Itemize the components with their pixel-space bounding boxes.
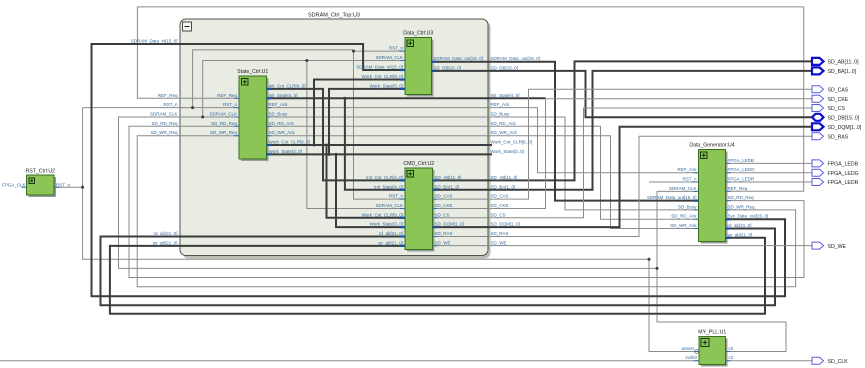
junction RST_n: [81, 186, 84, 189]
svg-text:Sys_Data_out[15..0]: Sys_Data_out[15..0]: [728, 214, 769, 219]
pin Work_State[3..0] of CMD_Ctrl: [400, 226, 405, 228]
svg-text:SD_DQM[1..0]: SD_DQM[1..0]: [435, 222, 464, 227]
pin wr_ab[21..0] of CMD_Ctrl: [400, 245, 405, 247]
pin RST_n of State_Ctrl: [234, 107, 239, 109]
wire FPGA_LEDG: [726, 172, 813, 174]
svg-text:SD_WR_Req: SD_WR_Req: [150, 130, 178, 135]
svg-text:rd_ab[21..0]: rd_ab[21..0]: [153, 231, 177, 236]
svg-text:FPGA_LEDG: FPGA_LEDG: [728, 167, 756, 172]
pin SD_RD_Req of State_Ctrl: [234, 125, 239, 127]
svg-text:FPGA_LEDR: FPGA_LEDR: [828, 180, 859, 186]
junction SDRAM_CLK to CMD: [305, 59, 308, 62]
wire RST_n into SDRAM_Ctrl_Top: [83, 107, 239, 109]
svg-text:SD_RD_Req: SD_RD_Req: [151, 121, 178, 126]
pin REF_Req of State_Ctrl: [234, 97, 239, 99]
svg-text:SD_BA[1..0]: SD_BA[1..0]: [491, 184, 516, 189]
port SD_CS: [812, 105, 845, 113]
pin RST_n of RST_Ctrl: [54, 186, 59, 188]
wire RST_n trunk to PLL areset: [83, 108, 695, 352]
wire SD_CLK from PLL c2: [726, 360, 813, 362]
junction Work_Cnt_CLR up: [313, 144, 316, 147]
svg-text:SD_CKE: SD_CKE: [491, 203, 509, 208]
svg-text:SD_AB[11..0]: SD_AB[11..0]: [435, 175, 462, 180]
svg-text:SD_CS: SD_CS: [491, 212, 506, 217]
wire FPGA_LEDR: [726, 181, 813, 183]
svg-text:Init_State[4..0]: Init_State[4..0]: [269, 93, 298, 98]
pin FPGA_CLK of RST_Ctrl: [22, 186, 27, 188]
pin rd_ab[21..0] of CMD_Ctrl: [400, 235, 405, 237]
svg-text:SD_CAS: SD_CAS: [828, 87, 849, 93]
svg-text:SD_WR_Req: SD_WR_Req: [210, 130, 238, 135]
wire FPGA_LEDB: [726, 162, 813, 164]
svg-text:Work_Cnt_CLR[9..0]: Work_Cnt_CLR[9..0]: [269, 140, 310, 145]
pin SDRAM_Data_out[15..0] of Data_Generator: [694, 200, 699, 202]
svg-text:SDRAM_CLK: SDRAM_CLK: [375, 203, 403, 208]
svg-text:SD_RAS: SD_RAS: [435, 231, 453, 236]
wire SD_Busy: [267, 117, 699, 210]
svg-text:REF_Req: REF_Req: [158, 93, 178, 98]
wire Work_State to CMD_Ctrl: [336, 154, 405, 227]
svg-text:SD_WR_Ack: SD_WR_Ack: [269, 130, 296, 135]
wire Work_Cnt_CLR to Data_Ctrl: [314, 80, 405, 145]
svg-text:SDRAM_CLK: SDRAM_CLK: [209, 112, 237, 117]
pin areset of MY_PLL: [694, 351, 699, 353]
svg-text:SD_RD_Ack: SD_RD_Ack: [269, 121, 295, 126]
wire RST_n to CMD_Ctrl: [193, 50, 405, 199]
wire SDRAM_CLK branch to SDRAM_Ctrl_Top: [119, 117, 658, 268]
block MY_PLL:U1: [698, 330, 727, 367]
wire REF_Req feedback: [137, 7, 803, 191]
wire SD_RD_Req feedback: [129, 126, 804, 277]
pin SDRAM_CLK of Data_Ctrl: [400, 60, 405, 62]
junction RST_n to Data_Ctrl: [352, 50, 355, 53]
svg-text:SD_CKE: SD_CKE: [828, 97, 849, 103]
svg-text:SD_RD_Req: SD_RD_Req: [211, 121, 238, 126]
svg-text:Init_Cnt_CLR[4..0]: Init_Cnt_CLR[4..0]: [366, 175, 403, 180]
pin Sys_Data_out[15..0] of Data_Generator: [726, 218, 731, 220]
svg-text:FPGA_LEDR: FPGA_LEDR: [728, 177, 756, 182]
svg-text:REF_Ack: REF_Ack: [491, 102, 511, 107]
pin SD_DQM[1..0] of CMD_Ctrl: [433, 226, 438, 228]
junction SDRAM_CLK inner: [201, 116, 204, 119]
wire SD_CS to port: [433, 108, 813, 218]
junction Init_State: [343, 97, 346, 100]
pin Init_State[4..0] of CMD_Ctrl: [400, 189, 405, 191]
port SD_AB[11..0]: [812, 58, 859, 66]
svg-text:Init_State[4..0]: Init_State[4..0]: [491, 93, 520, 98]
port FPGA_LEDR: [812, 179, 859, 187]
wire SD_DB bus to port: [432, 71, 813, 117]
junction Work_State down: [335, 153, 338, 156]
svg-text:SD_RD_Ack: SD_RD_Ack: [671, 214, 697, 219]
wire Work_State to Data_Ctrl: [329, 89, 405, 154]
port SD_RAS: [812, 133, 849, 141]
svg-text:SD_CKE: SD_CKE: [435, 203, 453, 208]
svg-text:SD_Busy: SD_Busy: [678, 204, 698, 209]
svg-text:SD_WR_Ack: SD_WR_Ack: [670, 223, 697, 228]
pin RST_n of Data_Ctrl: [400, 50, 405, 52]
svg-text:SDRAM_Data_out[15..0]: SDRAM_Data_out[15..0]: [491, 56, 541, 61]
wire SD_CKE to port: [433, 99, 813, 209]
port SD_DQM[1..0]: [812, 123, 862, 131]
pin SDRAM_Data_out[15..0] of Data_Ctrl: [432, 61, 437, 63]
pin c2 of MY_PLL: [726, 360, 731, 362]
svg-text:REF_Req: REF_Req: [728, 186, 748, 191]
svg-text:SD_WR_Req: SD_WR_Req: [728, 204, 756, 209]
pin SD_RD_Ack of State_Ctrl: [267, 125, 272, 127]
block State_Ctrl:U1: [237, 69, 268, 161]
svg-text:Work_State[3..0]: Work_State[3..0]: [370, 222, 403, 227]
hierarchy box SDRAM_Ctrl_Top:U3: [180, 13, 491, 259]
wire SD_DQM bus to port: [433, 127, 813, 227]
pin SD_CKE of CMD_Ctrl: [433, 207, 438, 209]
svg-text:RST_n: RST_n: [163, 102, 178, 107]
svg-text:SD_BA[1..0]: SD_BA[1..0]: [435, 184, 460, 189]
pin wr_ab[21..0] of Data_Generator: [726, 237, 731, 239]
svg-text:REF_Req: REF_Req: [217, 93, 237, 98]
svg-text:FPGA_LEDB: FPGA_LEDB: [828, 162, 859, 168]
svg-text:Work_Cnt_CLR[9..0]: Work_Cnt_CLR[9..0]: [362, 74, 403, 79]
pin rd_ab[21..0] of Data_Generator: [726, 227, 731, 229]
wire Work_Cnt_CLR to CMD_Ctrl: [327, 145, 406, 218]
pin SD_Busy of State_Ctrl: [267, 116, 272, 118]
svg-text:SDRAM_Data_out[15..0]: SDRAM_Data_out[15..0]: [434, 56, 484, 61]
svg-text:SD_DQM[1..0]: SD_DQM[1..0]: [491, 222, 520, 227]
wire SD_RD_Ack: [267, 126, 699, 219]
svg-text:wr_ab[21..0]: wr_ab[21..0]: [378, 240, 403, 245]
port SD_DB[15..0]: [812, 114, 860, 122]
pin Init_State[4..0] of State_Ctrl: [267, 97, 272, 99]
port FPGA_LEDB: [812, 160, 859, 168]
svg-text:areset: areset: [681, 346, 694, 351]
svg-text:SD_CAS: SD_CAS: [435, 194, 453, 199]
svg-text:RST_n: RST_n: [56, 183, 71, 188]
svg-text:Work_Cnt_CLR[9..0]: Work_Cnt_CLR[9..0]: [491, 140, 532, 145]
pin Work_State[3..0] of Data_Ctrl: [400, 88, 405, 90]
svg-text:Init_Cnt_CLR[4..0]: Init_Cnt_CLR[4..0]: [269, 83, 306, 88]
pin REF_Ack of Data_Generator: [694, 172, 699, 174]
pin FPGA_LEDG of Data_Generator: [726, 172, 731, 174]
svg-text:SD_DQM[1..0]: SD_DQM[1..0]: [828, 125, 862, 131]
pin SD_Busy of Data_Generator: [694, 209, 699, 211]
wire RST_n to Data_Ctrl: [354, 50, 406, 52]
svg-text:RST_n: RST_n: [223, 102, 238, 107]
wire SD_CAS to port: [433, 89, 813, 199]
wire Work_Cnt_CLR bus: [267, 144, 493, 146]
svg-text:RST_n: RST_n: [389, 46, 404, 51]
svg-text:Work_State[3..0]: Work_State[3..0]: [269, 149, 302, 154]
svg-text:SD_AB[11..0]: SD_AB[11..0]: [828, 60, 860, 66]
svg-text:SDRAM_CLK: SDRAM_CLK: [150, 112, 178, 117]
svg-text:SD_WE: SD_WE: [435, 240, 451, 245]
port FPGA_LEDG: [812, 169, 859, 177]
pin SDRAM_CLK of State_Ctrl: [234, 116, 239, 118]
svg-text:SD_WE: SD_WE: [491, 240, 507, 245]
svg-text:Work_Cnt_CLR[9..0]: Work_Cnt_CLR[9..0]: [362, 212, 403, 217]
pin Init_Cnt_CLR[4..0] of CMD_Ctrl: [400, 179, 405, 181]
svg-text:CMD_Ctrl:U2: CMD_Ctrl:U2: [403, 161, 434, 167]
pin areset inversion bubble: [695, 350, 699, 354]
block Data_Ctrl:U3: [403, 31, 433, 97]
wire Init_State bus: [267, 97, 546, 99]
svg-text:SD_Busy: SD_Busy: [491, 112, 511, 117]
pin SD_AB[11..0] of CMD_Ctrl: [433, 179, 438, 181]
port SD_WE: [812, 242, 846, 250]
pin SDRAM_Data_in[15..0] of Data_Ctrl: [400, 69, 405, 71]
pin SDRAM_CLK of CMD_Ctrl: [400, 207, 405, 209]
port SD_CLK: [812, 357, 848, 365]
svg-text:c0: c0: [729, 346, 734, 351]
svg-text:SD_RAS: SD_RAS: [491, 231, 509, 236]
block RST_Ctrl:U2: [26, 169, 56, 198]
svg-text:FPGA_LEDG: FPGA_LEDG: [828, 171, 859, 177]
svg-text:SD_RD_Req: SD_RD_Req: [728, 195, 755, 200]
pin REF_Ack of State_Ctrl: [267, 107, 272, 109]
pin c0 of MY_PLL: [726, 351, 731, 353]
pin FPGA_LEDB of Data_Generator: [726, 162, 731, 164]
svg-text:rd_ab[21..0]: rd_ab[21..0]: [379, 231, 403, 236]
svg-text:SD_WR_Ack: SD_WR_Ack: [491, 130, 518, 135]
port SD_CKE: [812, 95, 849, 103]
pin SD_WR_Req of Data_Generator: [726, 209, 731, 211]
pin SD_WR_Req of State_Ctrl: [234, 135, 239, 137]
svg-text:RST_n: RST_n: [682, 177, 697, 182]
port SD_BA[1..0]: [812, 67, 857, 75]
svg-text:SD_BA[1..0]: SD_BA[1..0]: [828, 69, 857, 75]
pin SDRAM_CLK of Data_Generator: [694, 190, 699, 192]
svg-text:SD_RD_Ack: SD_RD_Ack: [491, 121, 517, 126]
pin SD_CS of CMD_Ctrl: [433, 217, 438, 219]
svg-text:Work_State[3..0]: Work_State[3..0]: [370, 83, 403, 88]
svg-text:SD_RAS: SD_RAS: [828, 135, 849, 141]
junction Work_Cnt_CLR down: [325, 144, 328, 147]
svg-text:SD_CS: SD_CS: [828, 106, 846, 112]
svg-text:FPGA_LEDB: FPGA_LEDB: [728, 158, 755, 163]
svg-text:SDRAM_Ctrl_Top:U3: SDRAM_Ctrl_Top:U3: [308, 13, 360, 19]
pin FPGA_LEDR of Data_Generator: [726, 181, 731, 183]
svg-text:Work_State[3..0]: Work_State[3..0]: [491, 149, 524, 154]
wire SDRAM_CLK from PLL c0 to Data_Generator: [657, 191, 786, 351]
svg-text:RST_n: RST_n: [389, 194, 404, 199]
pin Work_State[3..0] of State_Ctrl: [267, 153, 272, 155]
svg-text:Init_State[4..0]: Init_State[4..0]: [374, 184, 403, 189]
junction SDRAM_CLK: [656, 267, 659, 270]
wire rd_ab bus feedback: [101, 229, 776, 306]
svg-text:REF_Ack: REF_Ack: [677, 167, 697, 172]
wire REF_Ack: [267, 108, 699, 173]
pin SD_RD_Req of Data_Generator: [726, 200, 731, 202]
wire SDRAM_Data_out bus: [432, 62, 699, 201]
wire SD_AB bus to port: [433, 61, 813, 180]
svg-text:SDRAM_Data_in[15..0]: SDRAM_Data_in[15..0]: [356, 65, 403, 70]
block Data_Generator:U4: [689, 143, 734, 244]
svg-text:SDRAM_Data_in[15..0]: SDRAM_Data_in[15..0]: [131, 39, 178, 44]
svg-text:wr_ab[21..0]: wr_ab[21..0]: [153, 240, 178, 245]
svg-text:inclk0: inclk0: [685, 355, 697, 360]
wire Work_State bus: [267, 153, 493, 155]
wire RST_n to Data_Generator: [649, 181, 699, 183]
pin SD_RAS of CMD_Ctrl: [433, 236, 438, 238]
pin inclk0 of MY_PLL: [694, 360, 699, 362]
svg-text:SDRAM_CLK: SDRAM_CLK: [375, 55, 403, 60]
pin Work_Cnt_CLR[9..0] of State_Ctrl: [267, 144, 272, 146]
svg-text:Data_Generator:U4: Data_Generator:U4: [689, 143, 734, 149]
svg-text:SD_AB[11..0]: SD_AB[11..0]: [491, 175, 518, 180]
wire SD_BA bus to port: [433, 71, 813, 190]
wire SD_WE to port: [433, 245, 813, 247]
pin REF_Req of Data_Generator: [726, 190, 731, 192]
pin SD_RD_Ack of Data_Generator: [694, 218, 699, 220]
svg-text:SD_CS: SD_CS: [435, 212, 450, 217]
svg-text:MY_PLL:U1: MY_PLL:U1: [698, 330, 726, 336]
svg-text:SD_WE: SD_WE: [828, 244, 847, 250]
svg-text:rd_ab[21..0]: rd_ab[21..0]: [728, 223, 752, 228]
svg-text:FPGA_CLK: FPGA_CLK: [2, 183, 26, 188]
wire SD_RAS to port: [433, 136, 813, 236]
wire SD_WR_Req feedback: [137, 136, 795, 287]
pin Work_Cnt_CLR[9..0] of Data_Ctrl: [400, 78, 405, 80]
block CMD_Ctrl:U2: [403, 161, 434, 252]
pin RST_n of Data_Generator: [694, 181, 699, 183]
pin SD_WR_Ack of State_Ctrl: [267, 135, 272, 137]
pin Work_Cnt_CLR[9..0] of CMD_Ctrl: [400, 217, 405, 219]
pin SD_WE of CMD_Ctrl: [433, 245, 438, 247]
svg-text:SD_DB[15..0]: SD_DB[15..0]: [491, 65, 519, 70]
wire FPGA_CLK to PLL inclk0: [0, 360, 699, 362]
pin RST_n of CMD_Ctrl: [400, 198, 405, 200]
pin SD_BA[1..0] of CMD_Ctrl: [433, 189, 438, 191]
svg-text:SDRAM_CLK: SDRAM_CLK: [669, 186, 697, 191]
svg-text:State_Ctrl:U1: State_Ctrl:U1: [237, 69, 268, 75]
svg-text:SD_CLK: SD_CLK: [828, 359, 849, 365]
svg-text:SDRAM_Data_out[15..0]: SDRAM_Data_out[15..0]: [647, 195, 697, 200]
svg-text:SD_DB[15..0]: SD_DB[15..0]: [434, 65, 462, 70]
pin Init_Cnt_CLR[4..0] of State_Ctrl: [267, 88, 272, 90]
svg-text:SD_Busy: SD_Busy: [269, 112, 289, 117]
svg-text:REF_Ack: REF_Ack: [269, 102, 289, 107]
junction RST_n trunk: [648, 258, 651, 261]
svg-text:Data_Ctrl:U3: Data_Ctrl:U3: [403, 31, 433, 37]
wire SDRAM_Data_in bus (Sys_Data_out feedback): [92, 44, 786, 296]
wire RST_n from RST_Ctrl: [54, 186, 83, 188]
port SD_CAS: [812, 86, 849, 94]
wire Init_Cnt_CLR bus: [267, 89, 406, 180]
svg-text:SD_DB[15..0]: SD_DB[15..0]: [828, 116, 860, 122]
svg-text:RST_Ctrl:U2: RST_Ctrl:U2: [26, 169, 56, 175]
wire Init_State to CMD_Ctrl: [345, 98, 405, 190]
pin SD_CAS of CMD_Ctrl: [433, 198, 438, 200]
pin SD_WR_Ack of Data_Generator: [694, 228, 699, 230]
junction RST_n inner: [191, 106, 194, 109]
svg-text:SD_CAS: SD_CAS: [491, 194, 509, 199]
wire SDRAM_CLK to Data_Ctrl: [203, 61, 405, 118]
svg-text:c2: c2: [729, 355, 734, 360]
pin SD_DB[15..0] of Data_Ctrl: [432, 70, 437, 72]
wire SDRAM_CLK to CMD_Ctrl: [307, 61, 405, 209]
junction Work_State up: [328, 153, 331, 156]
wire SD_WR_Ack: [267, 136, 699, 229]
wire wr_ab bus feedback: [110, 238, 765, 314]
svg-text:wr_ab[21..0]: wr_ab[21..0]: [728, 232, 753, 237]
